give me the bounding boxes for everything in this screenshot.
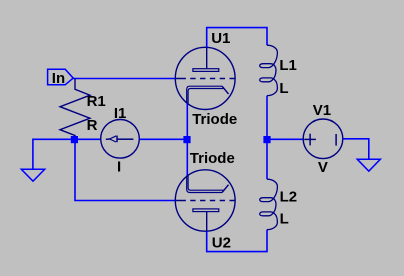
wire V1 to ground right [343,139,369,159]
ground left [21,169,44,181]
grid dashes U2 [175,200,186,202]
svg-text:R: R [87,117,98,134]
wire U1 cathode to J2 [186,103,188,139]
current source I1 [101,120,140,159]
wire In to U1 grid [73,78,175,80]
svg-text:R1: R1 [87,93,106,110]
junction J3 [263,136,270,143]
wire L2 to J3 [266,139,268,179]
svg-text:Triode: Triode [192,111,237,128]
cathode U1 [187,86,222,103]
resistor R1 [60,79,90,140]
inductor L1 [260,45,278,95]
svg-text:I: I [117,158,121,175]
svg-text:I1: I1 [114,105,127,122]
wire L1 to J3 [266,96,268,140]
minus bar [335,134,337,146]
svg-text:L: L [279,80,288,97]
plate bar U1 [193,69,219,72]
inductor L2 [260,179,278,230]
svg-text:L1: L1 [279,57,297,74]
plate lead U2 [206,212,208,232]
wire I1 to J2 [139,138,190,140]
svg-text:U2: U2 [212,234,231,251]
junction J1 [71,136,78,143]
wire U2 plate to L2 [207,230,267,252]
wire J1 to ground left [33,139,75,169]
svg-text:L: L [280,211,289,228]
triode U2 [175,170,235,231]
plus sign [304,138,316,140]
ground right [357,159,380,171]
arrow stub [106,138,110,140]
svg-text:In: In [52,70,65,87]
wire U2 cathode to J2 [186,139,188,175]
junction J2 [183,136,190,143]
svg-text:L2: L2 [280,188,298,205]
svg-text:U1: U1 [211,30,230,47]
wire J3 to V1 [264,138,304,140]
svg-text:V: V [318,159,328,176]
arrow wings [110,136,117,139]
arrow base bar [116,136,118,143]
plate bar U2 [193,209,219,212]
wire J1 down to U2 grid [75,139,175,200]
wire U1 plate to L1 [207,28,267,48]
voltage source V1 [303,119,343,159]
svg-text:Triode: Triode [190,150,235,167]
plate lead U1 [206,48,208,69]
wire J1 to I1 [75,138,101,140]
arrow shaft [118,138,134,140]
port flag In [48,69,74,85]
cathode U2 [187,175,222,192]
svg-text:V1: V1 [313,102,331,119]
grid dashes U1 [175,78,186,80]
triode U1 [175,47,235,109]
